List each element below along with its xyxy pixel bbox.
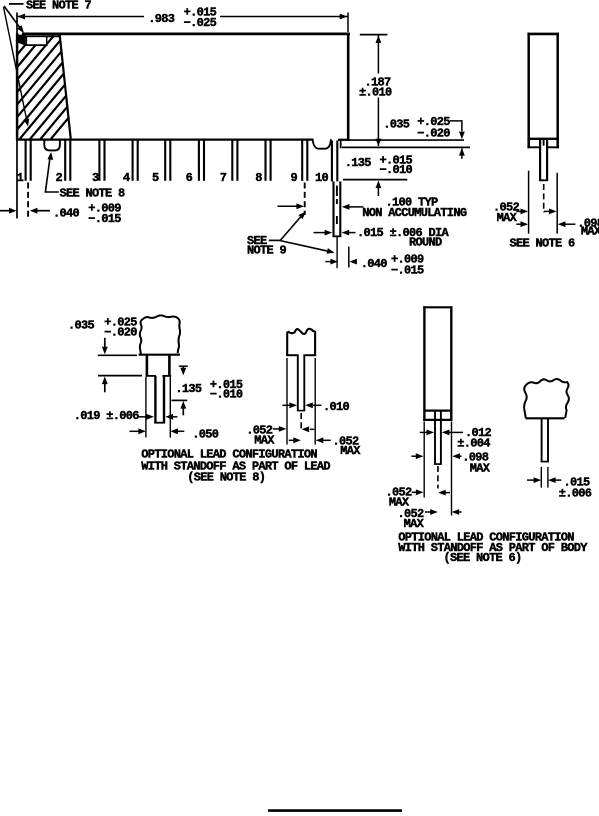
detail D body bottom edge — [526, 417, 565, 419]
lead length plane line — [343, 179, 407, 181]
detail A dim .019 text and arrows — [74, 409, 178, 423]
see note 9 text — [247, 234, 287, 258]
body bottom edge — [16, 138, 313, 140]
detail A lead standoff (wide) part — [146, 356, 171, 377]
detail B lead centerline dashes — [300, 413, 302, 429]
svg-text:.035: .035 — [68, 319, 95, 333]
end view lead centerline tick — [543, 139, 545, 146]
svg-text:MAX: MAX — [470, 462, 491, 476]
detail B lead — [297, 354, 305, 410]
detail D extension ticks — [541, 467, 548, 488]
dim .135 lower arrow — [376, 181, 382, 197]
svg-text:8: 8 — [255, 171, 262, 185]
detail C dim .098 arrows and text — [411, 450, 490, 475]
hatch boundary slant line — [60, 35, 71, 139]
dim .187 text — [359, 75, 392, 99]
dim .187 vertical line — [376, 35, 382, 146]
detail B dim .052 max right — [289, 434, 362, 458]
standoff bump left of pin 10 — [313, 139, 331, 149]
dim .098 max (end view) — [516, 216, 599, 238]
body bottom extension to .035 dim — [349, 139, 464, 141]
svg-text:.135: .135 — [175, 382, 202, 396]
svg-text:.019 ±.006: .019 ±.006 — [74, 409, 140, 423]
detail C dim .052 max lower — [398, 507, 462, 531]
detail B body bottom edge — [286, 354, 297, 356]
svg-text:−.015: −.015 — [88, 212, 121, 226]
svg-text:.040: .040 — [361, 257, 388, 271]
pin 8 lead — [255, 141, 270, 186]
dim .035 bracket and arrows — [450, 121, 465, 159]
pin 4 lead — [123, 141, 138, 186]
detail C dim .012 arrows and text — [420, 426, 492, 451]
svg-text:(SEE NOTE 8): (SEE NOTE 8) — [187, 471, 265, 485]
pin 9 centerline — [304, 183, 306, 216]
detail A dim .035 arrows — [98, 338, 142, 393]
detail D body fragment blob — [524, 379, 569, 418]
see note 8 leader — [45, 152, 58, 192]
dim .040 left text — [53, 202, 121, 227]
detail B extension lines — [287, 358, 315, 445]
svg-text:.035: .035 — [383, 117, 410, 131]
detail C extension lines — [424, 422, 451, 516]
svg-text:SEE NOTE 7: SEE NOTE 7 — [26, 0, 92, 13]
detail A dim .035 text — [68, 316, 137, 340]
svg-text:SEE NOTE 6: SEE NOTE 6 — [510, 237, 576, 251]
svg-text:.050: .050 — [192, 427, 219, 441]
end view body right edge — [556, 33, 559, 149]
svg-text:NOTE 9: NOTE 9 — [247, 244, 287, 258]
dim .040 left arrows — [0, 208, 50, 214]
dim .052 max (end view) — [493, 200, 557, 225]
seating plane line — [342, 146, 470, 148]
detail A body bottom edge — [139, 354, 180, 356]
svg-text:−.020: −.020 — [104, 325, 137, 339]
svg-text:SEE NOTE 8: SEE NOTE 8 — [60, 186, 126, 200]
pin 2 lead — [55, 141, 70, 186]
dim .983 text — [148, 6, 216, 30]
pin 6 lead — [186, 141, 204, 186]
caption detail C — [398, 530, 588, 565]
end view lead — [539, 140, 548, 180]
package body top edge — [22, 33, 350, 36]
svg-text:3: 3 — [92, 171, 99, 185]
top-left notch in end seal — [26, 35, 61, 45]
caption detail A/B — [141, 447, 330, 484]
note 7 leader into hatched seal area — [4, 7, 31, 127]
svg-text:.040: .040 — [53, 206, 80, 220]
detail C dim .052 max upper — [386, 485, 451, 509]
body bottom edge right of pin 10 — [338, 139, 349, 141]
detail D dim .015 arrows and text — [527, 475, 592, 500]
bottom page rule — [268, 809, 402, 812]
svg-text:MAX: MAX — [497, 211, 518, 225]
svg-text:6: 6 — [186, 171, 193, 185]
dim .015 dia text — [357, 226, 450, 250]
detail C lead centerline dashed — [437, 466, 439, 489]
note 7 leader to chamfer corner — [4, 6, 26, 35]
pin 9 lead — [290, 141, 307, 186]
pin 10 lead lower round portion — [333, 181, 342, 236]
standoff step right of pin 10 — [340, 139, 342, 148]
svg-text:−.025: −.025 — [184, 16, 217, 30]
svg-text:9: 9 — [290, 171, 297, 185]
pin 1 centerline — [27, 183, 29, 220]
pin 1 lead — [17, 141, 31, 186]
detail A body fragment — [140, 315, 180, 354]
extension line left (body end / pin1 dim) — [16, 13, 18, 219]
detail B body fragment — [287, 329, 315, 356]
body top-left chamfer — [16, 34, 25, 42]
end view body top edge — [527, 33, 559, 36]
standoff bump at pin 1 end — [44, 139, 60, 150]
svg-text:±.004: ±.004 — [457, 437, 490, 451]
end view body bottom edge — [527, 138, 559, 140]
detail A lead narrow part — [154, 376, 165, 423]
dim .040 right arrows — [325, 259, 357, 265]
svg-text:.010: .010 — [323, 400, 350, 414]
dim .983 line — [17, 14, 348, 20]
dim .135 text — [345, 153, 413, 177]
solid dark chamfer zone left of notch — [17, 35, 26, 46]
svg-text:±.010: ±.010 — [359, 85, 392, 99]
end view body left edge — [527, 33, 530, 149]
detail B dim .010 arrows and text — [283, 400, 350, 414]
detail C body outline — [423, 306, 452, 421]
pin 3 lead — [92, 141, 105, 186]
detail C lead — [434, 411, 442, 464]
svg-text:MAX: MAX — [581, 225, 599, 239]
detail A dim .135 text — [175, 378, 243, 402]
svg-text:1: 1 — [17, 171, 24, 185]
detail D lead — [541, 419, 549, 462]
svg-text:5: 5 — [152, 171, 159, 185]
svg-text:MAX: MAX — [404, 517, 425, 531]
detail A dim .050 arrows and text — [130, 427, 219, 441]
svg-text:MAX: MAX — [254, 433, 275, 447]
detail A dim .135 arrows — [172, 366, 188, 415]
end view lead centerline dashed — [543, 184, 545, 213]
dim .035 text — [383, 115, 450, 140]
pin 5 lead — [152, 141, 170, 186]
pin 7 lead — [220, 141, 238, 186]
extension line right of .983 — [347, 13, 349, 33]
svg-text:2: 2 — [55, 171, 62, 185]
detail A extension lines for .050 — [146, 377, 170, 438]
dim .100 typ arrows — [278, 203, 364, 209]
svg-text:.135: .135 — [345, 156, 372, 170]
dim .040 right extension line — [348, 247, 350, 268]
dim .187 extension tick — [360, 34, 388, 36]
pin 10 centerline solid below lead tip — [336, 237, 338, 269]
svg-text:−.010: −.010 — [380, 163, 413, 177]
svg-text:MAX: MAX — [340, 444, 361, 458]
svg-text:NON ACCUMULATING: NON ACCUMULATING — [362, 206, 467, 220]
svg-text:10: 10 — [315, 171, 329, 185]
dim .100 typ text — [362, 196, 467, 221]
svg-text:±.006: ±.006 — [559, 487, 592, 501]
hatched end seal section — [0, 35, 137, 139]
svg-text:−.010: −.010 — [210, 387, 243, 401]
svg-text:.983: .983 — [148, 12, 175, 26]
pin 10 centerline dashes — [336, 186, 338, 225]
detail B dim .052 max left — [246, 423, 314, 447]
pin 10 lead upper — [315, 141, 337, 186]
end view standoff bottom segments — [527, 146, 559, 148]
dim .015 dia arrows — [314, 230, 356, 236]
svg-text:(SEE NOTE 6): (SEE NOTE 6) — [444, 551, 522, 565]
dim .040 right text — [361, 252, 424, 277]
see note 9 leader to pin 10 — [280, 241, 335, 256]
body right edge — [347, 33, 350, 141]
end view extension lines — [529, 171, 558, 234]
body left edge (thick over extension) — [16, 33, 19, 140]
svg-text:−.020: −.020 — [417, 127, 450, 141]
svg-text:7: 7 — [220, 171, 227, 185]
svg-text:ROUND: ROUND — [409, 235, 442, 249]
note 7 text — [9, 0, 92, 13]
see note 9 leader to pin 9 — [280, 210, 308, 241]
svg-text:−.015: −.015 — [391, 263, 424, 277]
svg-text:4: 4 — [123, 171, 130, 185]
